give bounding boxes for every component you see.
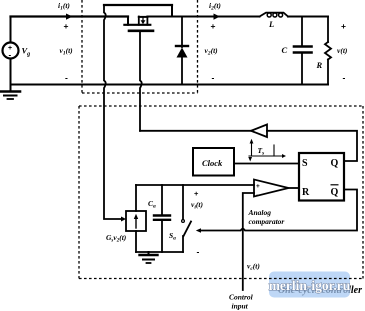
svg-text:-: -: [65, 73, 68, 83]
svg-text:L: L: [268, 19, 274, 29]
svg-text:Clock: Clock: [202, 158, 223, 168]
svg-text:+: +: [341, 21, 346, 31]
svg-text:v1(t): v1(t): [60, 46, 74, 57]
svg-text:v2(t): v2(t): [205, 46, 219, 57]
svg-text:+: +: [64, 21, 69, 31]
svg-text:+: +: [256, 183, 260, 190]
svg-text:R: R: [316, 60, 323, 70]
svg-text:-: -: [197, 247, 200, 257]
svg-text:Control: Control: [229, 293, 254, 302]
svg-text:i2(t): i2(t): [209, 1, 221, 12]
svg-text:-: -: [343, 73, 346, 83]
svg-text:-: -: [256, 192, 258, 199]
svg-text:i1(t): i1(t): [58, 1, 70, 12]
svg-text:v(t): v(t): [337, 46, 348, 55]
svg-text:input: input: [232, 302, 249, 311]
svg-text:-: -: [212, 73, 215, 83]
svg-text:C: C: [282, 45, 288, 55]
svg-text:+: +: [211, 21, 216, 31]
svg-text:vc(t): vc(t): [247, 262, 260, 273]
svg-text:Gsv2(t): Gsv2(t): [106, 233, 127, 244]
svg-text:Q: Q: [331, 187, 339, 198]
svg-text:-: -: [9, 51, 12, 60]
svg-text:comparator: comparator: [249, 217, 285, 226]
svg-text:merlin-igor.ru: merlin-igor.ru: [269, 278, 351, 293]
svg-text:R: R: [302, 187, 310, 198]
svg-text:S: S: [302, 158, 308, 169]
svg-text:Analog: Analog: [248, 208, 272, 217]
svg-text:Q: Q: [331, 158, 339, 169]
svg-text:+: +: [194, 189, 199, 198]
svg-text:vi(t): vi(t): [191, 200, 203, 211]
